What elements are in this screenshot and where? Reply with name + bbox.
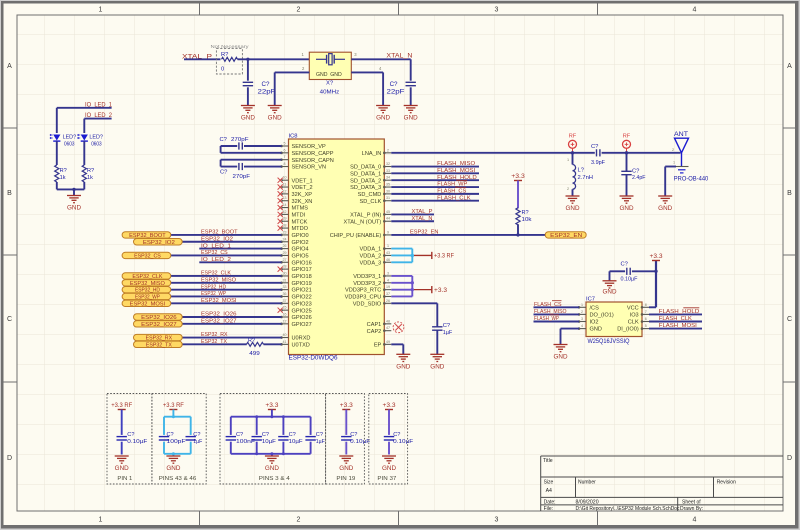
svg-text:FLASH_HOLD: FLASH_HOLD [659,309,700,315]
svg-text:ESP32_CLK: ESP32_CLK [201,271,231,277]
svg-text:MTDO: MTDO [292,226,309,232]
IC8 pin 33 (GPIO21) [281,285,312,294]
svg-text:XTAL_P: XTAL_P [412,209,433,215]
svg-text:R?: R? [522,210,529,216]
wire +3.3 rail (PINS 3 & 4) [231,410,311,417]
IC8 pin 4 (VDD3P3_2) [353,278,391,287]
net label ESP32_TX [201,339,227,345]
svg-text:LED?: LED? [89,134,103,140]
IC8 pin 5 (SENSOR_VP) [281,142,326,151]
svg-text:5: 5 [645,324,647,328]
svg-text:GND: GND [603,289,618,296]
svg-text:1: 1 [99,7,103,14]
IC8 pin 38 (MTDO) [281,224,309,233]
svg-text:23: 23 [283,230,287,234]
svg-text:SD_DATA_1: SD_DATA_1 [350,171,381,177]
svg-text:GPIO5: GPIO5 [292,254,309,260]
capacitor C? 270pF (SENSOR_VN) [220,163,250,180]
no-connect marker on MTMS [278,205,283,210]
svg-text:GPIO26: GPIO26 [292,315,312,321]
port ESP32_BOOT [122,232,171,239]
svg-text:Size: Size [544,480,554,486]
port ESP32_TX [134,341,183,348]
IC8 pin 1 (VDDA_1) [360,244,392,253]
svg-text:1µF: 1µF [316,439,326,445]
svg-text:47: 47 [386,326,390,330]
svg-text:VDET_1: VDET_1 [292,178,313,184]
svg-text:ESP32_WP: ESP32_WP [201,291,226,297]
IC8 pin 45 (XTAL_P (IN)) [350,210,391,219]
svg-text:ESP32_EN: ESP32_EN [550,233,582,239]
svg-text:GND: GND [265,465,280,472]
wire FLASH_MOSI from IC7 [649,328,702,330]
svg-text:GND: GND [590,327,602,333]
svg-text:MTDI: MTDI [292,213,306,219]
svg-text:SD_CMD: SD_CMD [358,192,382,198]
svg-text:40MHz: 40MHz [320,89,340,95]
net label XTAL_N [386,54,412,60]
capacitor C? 0.10uF (PIN 19) [341,410,371,455]
svg-text:6: 6 [645,317,647,321]
svg-text:ESP32_WP: ESP32_WP [135,294,160,300]
svg-text:ESP32_TX: ESP32_TX [201,339,227,345]
svg-text:D: D [7,455,12,462]
capacitor C? 22pF (left) [243,81,276,96]
svg-text:GND: GND [268,115,283,122]
svg-text:30: 30 [386,189,390,193]
svg-text:27: 27 [283,258,287,262]
svg-text:LED?: LED? [63,134,77,140]
crystal pin 3 [354,52,357,57]
capacitor C? 100pF [159,417,186,454]
wire inductor to ground [572,189,574,196]
svg-text:2: 2 [297,7,301,14]
svg-text:FLASH_MISO: FLASH_MISO [534,309,567,315]
svg-text:Drawn By:: Drawn By: [680,506,703,512]
wire capacitor to ground (left) [247,87,249,105]
capacitor C? 0.10uF (IC7 decoupling) [621,262,638,283]
svg-text:3: 3 [387,271,389,275]
wire ESP32_CLK to IC8 [171,275,282,277]
svg-text:4: 4 [693,7,697,14]
IC7 pin 8 (VCC) [627,303,649,312]
svg-text:FLASH_CLK: FLASH_CLK [437,195,471,201]
svg-text:PIN 37: PIN 37 [377,476,396,482]
ground at IC7 decoupling capacitor [603,281,618,296]
svg-text:VDET_2: VDET_2 [292,185,313,191]
svg-text:2: 2 [297,517,301,524]
no-connect marker on GPIO25 [278,308,283,313]
net label ESP32_EN [410,229,439,235]
svg-text:2: 2 [672,148,674,152]
svg-text:A: A [7,63,12,70]
ground (PINS 3 & 4) [265,456,280,472]
svg-text:XTAL_N (OUT): XTAL_N (OUT) [343,219,381,225]
net label FLASH_CLK at IC7 right [659,316,692,322]
power +3.3 (PIN 37) [383,402,397,410]
junction on ground rail (PINS 43 & 46) [172,452,175,455]
IC8 pin 46 (VDDA_3) [360,258,392,267]
svg-text:ESP32_CS: ESP32_CS [201,250,228,256]
svg-text:3: 3 [495,517,499,524]
wire FLASH_WP from IC8 [391,186,479,188]
svg-text:PINS 43 & 46: PINS 43 & 46 [159,476,197,482]
svg-text:GND: GND [166,465,181,472]
IC8 pin 31 (GPIO19) [281,278,312,287]
svg-text:46: 46 [386,258,390,262]
wire SENSOR_CAPN / SENSOR_VN loop [221,160,282,167]
svg-text:ESP32_IO2: ESP32_IO2 [143,240,175,246]
svg-text:/CS: /CS [590,305,600,311]
svg-text:C?: C? [621,262,629,268]
svg-text:1µF: 1µF [193,439,203,445]
net label ESP32_BOOT [201,230,238,236]
svg-text:ESP32_IO27: ESP32_IO27 [201,319,237,325]
port ESP32_IO26 [134,314,183,321]
svg-text:SD_DATA_0: SD_DATA_0 [350,165,381,171]
power +3.3 (PINS 3 & 4) [265,402,279,410]
wire ESP32_MOSI to IC8 [171,302,282,304]
svg-text:24: 24 [283,237,287,241]
svg-text:1: 1 [673,161,675,165]
op-amp style IC body IC8 ESP32-D0WDQ6 [289,133,385,361]
port ESP32_HD [122,286,171,293]
wire ground rail (PINS 43 & 46) [164,454,191,456]
svg-text:C?: C? [393,432,400,438]
wire resistor to crystal pin 1 [238,58,310,60]
svg-text:GPIO16: GPIO16 [292,260,312,266]
svg-text:2: 2 [567,187,569,191]
capacitor C? 270pF (SENSOR_VP) [220,137,249,150]
svg-text:ESP32_MISO: ESP32_MISO [130,281,165,287]
IC8 pin 31 (SD_CLK) [360,196,392,205]
net label FLASH_MOSI at IC7 right [659,323,697,329]
junction at VCC decoupling tap [654,270,657,273]
svg-text:1k: 1k [87,175,93,181]
no-connect marker on GPIO17 [278,267,283,272]
svg-text:SD_DATA_3: SD_DATA_3 [350,185,381,191]
wire ESP32_WP to IC8 [171,295,282,297]
IC8 pin 43 (VDDA_2) [360,251,392,260]
wire ESP32_EN (CHIP_PU) [391,234,545,236]
IC8 pin 36 (GPIO22) [281,292,312,301]
svg-text:C?: C? [262,432,269,438]
svg-text:38: 38 [283,224,287,228]
svg-text:13: 13 [283,196,287,200]
svg-text:VDD3P3_1: VDD3P3_1 [353,274,381,280]
crystal pin 4 [379,66,382,71]
svg-text:U0TXD: U0TXD [292,342,310,348]
net label XTAL_N at IC8 [412,216,433,222]
no-connect marker on 32K_XN [278,198,283,203]
svg-text:C?: C? [289,432,296,438]
svg-text:CLK: CLK [628,320,639,326]
svg-text:5: 5 [284,142,286,146]
net label ESP32_IO26 [201,312,237,318]
svg-text:+3.3: +3.3 [434,288,448,294]
wire IC7 VCC to +3.3 [649,261,656,307]
svg-text:SD_CLK: SD_CLK [360,199,382,205]
capacitor C? 0.10uF (PIN 1 group) [117,410,148,455]
wire FLASH_CLK from IC8 [391,200,479,202]
svg-text:10µF: 10µF [262,439,277,445]
RF test point 1 [569,133,577,152]
svg-text:C?: C? [591,144,599,150]
svg-text:FLASH_MOSI: FLASH_MOSI [437,168,475,174]
no-connect marker on 32K_XP [278,191,283,196]
wire ESP32_HD to IC8 [171,289,282,291]
svg-text:0.10µF: 0.10µF [127,439,148,445]
svg-text:GPIO25: GPIO25 [292,308,312,314]
wire XTAL_N from IC8 [391,220,434,222]
wire capacitor to ground (VDD_SDIO) [436,330,438,354]
no-connect marker on MTCK [278,219,283,224]
svg-text:GND: GND [382,465,397,472]
IC8 pin 13 (32K_XN) [281,196,313,205]
svg-text:Title: Title [543,458,553,464]
svg-text:C?: C? [262,81,270,88]
wire FLASH_CLK from IC7 [649,321,702,323]
wire FLASH_HOLD from IC7 [649,313,702,315]
IC8 pin 7 (SENSOR_CAPN) [281,155,334,164]
crystal pin 1 [302,52,305,57]
no-connect marker on MTDI [278,212,283,217]
wire to inductor L? [572,153,574,165]
svg-text:1: 1 [567,158,569,162]
svg-text:R?: R? [87,168,94,174]
svg-text:C: C [7,316,12,323]
capacitor C? 3.9pF (series) [591,144,605,166]
svg-text:File:: File: [544,506,553,512]
svg-text:X?: X? [326,81,334,87]
junction at VDDA bracket [411,254,414,257]
svg-text:ESP32_IO26: ESP32_IO26 [141,315,177,321]
svg-text:+3.3: +3.3 [650,253,664,260]
wire SENSOR_VP / SENSOR_CAPP loop [221,146,282,153]
wire VDDA_1/2/3 to +3.3 RF [391,249,412,263]
junction at shunt capacitor tap [625,151,628,154]
svg-text:10: 10 [283,176,287,180]
svg-text:PRO-OB-440: PRO-OB-440 [674,177,709,183]
junction at XTAL_P node [246,58,249,61]
wire IO_LED_2 to IC8 [199,261,281,263]
svg-text:1k: 1k [60,175,66,181]
IC8 pin 35 (SD_DATA_3) [350,183,391,192]
port ESP32_MISO [122,280,171,287]
svg-text:GND: GND [330,72,342,78]
power +3.3 RF at VDDA [414,252,454,260]
svg-text:B: B [7,190,12,197]
svg-text:GND: GND [396,364,411,371]
IC8 pin 2 (LNA_IN) [362,148,392,157]
svg-text:31: 31 [283,278,287,282]
wire shunt capacitor to ground [626,175,628,196]
wire IO_LED_2 to LED? (second) [84,119,111,133]
power +3.3 RF (PIN 1 group) [111,402,132,410]
net label IO_LED_2 [85,113,113,119]
wire to LED ground [73,189,75,195]
svg-text:36: 36 [283,292,287,296]
svg-text:IO_LED_1: IO_LED_1 [201,243,231,249]
svg-text:31: 31 [386,196,390,200]
net label ESP32_CLK [201,271,231,277]
svg-text:14: 14 [283,203,287,207]
svg-text:37: 37 [386,292,390,296]
svg-text:C?: C? [193,432,200,438]
net label ESP32_RX [201,332,228,338]
port ESP32_CLK [122,273,171,280]
resistor R? 0 ohm [221,52,238,72]
svg-text:ESP32_BOOT: ESP32_BOOT [201,230,238,236]
svg-text:C?: C? [632,169,640,175]
IC8 pin 14 (MTMS) [281,203,309,212]
svg-text:IO2: IO2 [590,320,599,326]
svg-text:ESP32_HD: ESP32_HD [135,288,160,294]
svg-text:CAP2: CAP2 [367,329,382,335]
junction at VDD3P3 bracket (upper) [411,281,414,284]
power +3.3 at VDD3P3 [414,286,448,294]
svg-text:ESP32_MOSI: ESP32_MOSI [201,298,237,304]
svg-text:GND: GND [620,205,635,212]
svg-text:34: 34 [386,176,390,180]
junction at ESP32_EN pull-up [516,233,519,236]
svg-text:10µF: 10µF [289,439,304,445]
IC7 pin 7 (IO3) [630,310,649,319]
svg-text:270pF: 270pF [233,174,251,180]
wire antenna pin 1 to ground [665,167,676,197]
port ESP32_CS [122,252,171,259]
wire IO_LED_1 to IC8 [199,248,281,250]
svg-text:40: 40 [283,333,287,337]
wire ESP32_CS to IC8 [171,254,282,256]
svg-text:PIN 19: PIN 19 [336,476,355,482]
net label ESP32_IO27 [201,319,237,325]
net label ESP32_MOSI [201,298,237,304]
svg-text:GPIO23: GPIO23 [292,301,312,307]
IC8 pin 12 (32K_XP) [281,189,313,198]
capacitor C? 100nF (PINS 3 & 4) [226,417,256,454]
svg-text:28: 28 [283,265,287,269]
svg-text:ESP32_IO26: ESP32_IO26 [201,312,237,318]
svg-text:GND: GND [554,354,569,361]
svg-text:C?: C? [443,323,451,329]
svg-text:29: 29 [283,251,287,255]
IC8 pin 15 (GPIO25) [281,306,312,315]
ground at crystal pin 4 [376,106,391,122]
svg-text:37: 37 [283,299,287,303]
IC8 pin 48 (CAP1) [367,319,392,328]
IC7 pin 6 (CLK) [628,317,649,326]
svg-text:0.10µF: 0.10µF [393,439,414,445]
IC7 pin 2 (DO_(IO1)) [578,310,614,319]
svg-text:6: 6 [284,148,286,152]
capacitor C? 0.10uF (PIN 37) [384,410,414,455]
capacitor C? 10uF (PINS 3 & 4) [252,417,277,454]
svg-text:39: 39 [283,217,287,221]
svg-text:R?: R? [60,168,67,174]
svg-text:100pF: 100pF [167,439,187,445]
svg-text:35: 35 [386,183,390,187]
wire junction to capacitor C? 22pF (left) [247,59,249,80]
svg-text:2.4pF: 2.4pF [632,175,646,181]
svg-text:ESP32_CLK: ESP32_CLK [132,274,163,280]
IC8 pin 33 (SD_DATA_1) [350,169,391,178]
svg-text:43: 43 [386,251,390,255]
IC8 pin 41 (U0TXD) [281,340,310,349]
wire +3.3 RF rail (PINS 43 & 46) [164,410,191,417]
note Not Necessary (dashed box) [211,44,250,74]
svg-text:22pF: 22pF [387,89,405,96]
capacitor C? 1uF (PINS 3 & 4) [305,417,325,454]
ground under left 22pF capacitor [241,106,256,122]
IC7 pin 5 (DI_(IO0)) [617,324,649,333]
wire FLASH_WP to IC7 [534,321,580,323]
svg-text:2: 2 [581,310,583,314]
ground at crystal pin 2 [268,106,283,122]
power +3.3 at IC7 VCC [650,253,664,261]
svg-text:0603: 0603 [64,141,75,147]
ground under shunt capacitor [620,196,635,212]
svg-text:XTAL_P (IN): XTAL_P (IN) [350,213,381,219]
svg-text:499: 499 [249,351,259,357]
junction at inductor tap [571,151,574,154]
ground (PIN 37) [382,456,397,472]
svg-text:GPIO2: GPIO2 [292,240,309,246]
power +3.3 for pull-up [511,173,525,181]
IC8 pin 34 (SD_DATA_2) [350,176,391,185]
svg-text:DO_(IO1): DO_(IO1) [590,313,614,319]
svg-text:2: 2 [387,148,389,152]
ground under antenna [658,196,673,212]
svg-text:SENSOR_VN: SENSOR_VN [292,165,327,171]
svg-text:1: 1 [581,303,583,307]
wire resistors to ground rail [57,182,85,189]
wire IC7 GND pin to ground [561,329,580,345]
no-ERC marker on CAP1/CAP2 [393,322,404,333]
svg-text:GPIO18: GPIO18 [292,274,312,280]
wire FLASH_HOLD from IC8 [391,179,479,181]
svg-text:GND: GND [404,115,419,122]
dashed group box PINS 3 & 4 [220,394,326,485]
IC8 pin 27 (GPIO16) [281,258,312,267]
svg-text:IO_LED_2: IO_LED_2 [201,257,231,263]
capacitor C? 10uF (PINS 3 & 4) [278,417,303,454]
net label FLASH_CS at IC7 [534,301,562,308]
svg-text:LNA_IN: LNA_IN [362,151,382,157]
net label FLASH_CS [437,187,466,194]
port ESP32_EN [545,232,586,239]
svg-text:33: 33 [386,169,390,173]
svg-text:C?: C? [316,432,323,438]
svg-text:16: 16 [283,313,287,317]
svg-text:SENSOR_CAPN: SENSOR_CAPN [292,158,334,164]
svg-text:C?: C? [350,432,357,438]
net label IO_LED_2 at IC8 [201,257,231,263]
junction on +3.3 RF rail [172,415,175,418]
wire FLASH_MISO to IC7 [534,313,580,315]
wire +3.3 to resistor R? 10k [517,181,519,209]
no-connect marker on VDET_2 [278,184,283,189]
svg-text:D:\Git Repository\..\ESP32 Mod: D:\Git Repository\..\ESP32 Module Sch.Sc… [576,506,680,512]
svg-text:GND: GND [316,72,328,78]
dashed group box PIN 37 [369,394,408,485]
wire FLASH_MOSI from IC8 [391,172,479,174]
IC8 pin 39 (MTCK) [281,217,308,226]
svg-text:12: 12 [283,189,287,193]
svg-text:RF: RF [569,133,577,139]
svg-text:26: 26 [283,244,287,248]
port ESP32_WP [122,293,171,300]
